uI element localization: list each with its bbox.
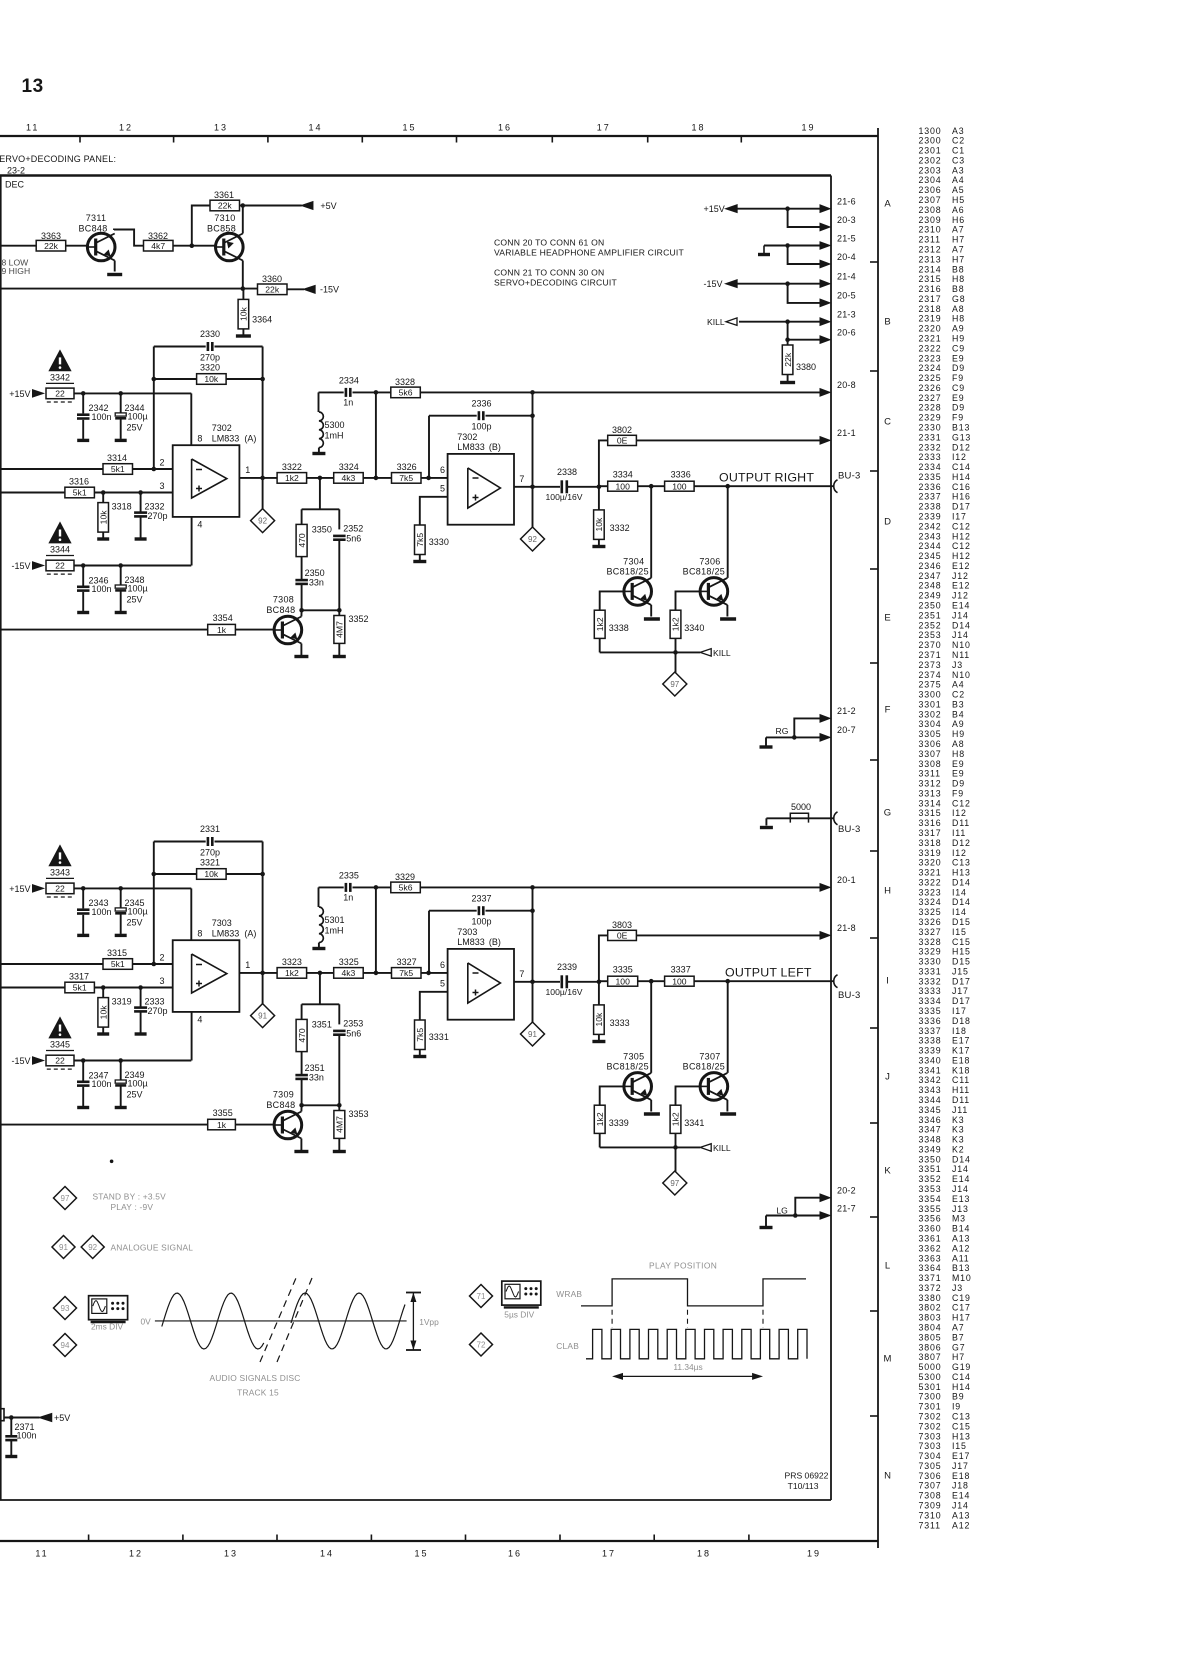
ground 2348: [115, 611, 127, 614]
connector pin 20-2: [820, 1194, 830, 1202]
svg-text:F9: F9: [952, 788, 964, 798]
svg-text:3803: 3803: [919, 1313, 942, 1323]
svg-text:C15: C15: [952, 937, 971, 947]
resistor 3331 (7k5): [415, 1020, 426, 1050]
svg-text:0E: 0E: [617, 436, 628, 446]
svg-text:3327: 3327: [919, 927, 942, 937]
svg-text:3353: 3353: [349, 1109, 369, 1119]
svg-text:G13: G13: [952, 432, 971, 442]
svg-text:100µ: 100µ: [128, 411, 148, 421]
wire Q1 emitter to ground: [650, 605, 652, 617]
svg-text:3329: 3329: [395, 872, 415, 882]
svg-text:4k3: 4k3: [341, 473, 355, 483]
svg-text:7300: 7300: [919, 1392, 942, 1402]
svg-text:94: 94: [61, 1341, 70, 1350]
svg-text:97: 97: [670, 1179, 679, 1188]
svg-text:H8: H8: [952, 749, 965, 759]
svg-text:3339: 3339: [609, 1118, 629, 1128]
svg-text:7307: 7307: [699, 1051, 720, 1061]
svg-text:14: 14: [320, 1549, 334, 1559]
svg-text:18: 18: [691, 123, 705, 133]
connector BU-3 output: [834, 975, 838, 988]
svg-text:I12: I12: [952, 848, 967, 858]
capacitor 2350 (33n): [301, 557, 303, 580]
svg-text:3335: 3335: [919, 1006, 942, 1016]
wire supply rail: [74, 565, 191, 567]
resistor 3352 (4M7): [338, 610, 340, 615]
capacitor 2345 (100u): [120, 888, 122, 908]
svg-text:(A): (A): [244, 929, 256, 939]
svg-text:J14: J14: [952, 630, 969, 640]
ground 2346: [77, 611, 89, 614]
node 3318 tap: [101, 985, 106, 990]
svg-text:3804: 3804: [919, 1323, 942, 1333]
svg-text:I14: I14: [952, 887, 967, 897]
svg-text:C13: C13: [952, 858, 971, 868]
svg-text:3302: 3302: [919, 709, 942, 719]
svg-text:3313: 3313: [919, 788, 942, 798]
svg-text:B13: B13: [952, 423, 970, 433]
wire 3380 to ground: [787, 375, 789, 382]
svg-text:21-7: 21-7: [837, 1203, 856, 1213]
svg-text:3321: 3321: [919, 868, 942, 878]
wire pin3 input: [0, 492, 65, 494]
svg-text:2319: 2319: [919, 314, 942, 324]
svg-text:6: 6: [440, 960, 445, 970]
svg-text:2333: 2333: [919, 452, 942, 462]
svg-text:D17: D17: [952, 996, 971, 1006]
svg-text:J17: J17: [952, 1461, 969, 1471]
node RG junction: [792, 735, 797, 740]
svg-text:7305: 7305: [919, 1461, 942, 1471]
node 2336 tap: [426, 476, 431, 481]
ground RG: [765, 737, 767, 745]
svg-text:5301: 5301: [919, 1382, 942, 1392]
svg-text:CLAB: CLAB: [556, 1341, 579, 1351]
svg-text:3348: 3348: [919, 1135, 942, 1145]
resistor 3341 (1k2): [670, 1105, 681, 1133]
svg-text:2304: 2304: [919, 175, 942, 185]
svg-text:C12: C12: [952, 541, 971, 551]
wire 1k2 to 4k3: [307, 972, 334, 974]
svg-text:J: J: [885, 1071, 890, 1082]
svg-text:A5: A5: [952, 185, 964, 195]
right ruler border: [877, 128, 879, 1548]
node 3362/3361 junction: [190, 243, 195, 248]
svg-text:0E: 0E: [617, 931, 628, 941]
connector pin 21-3: [820, 318, 830, 326]
svg-text:A3: A3: [952, 165, 964, 175]
ground 3380: [780, 381, 795, 384]
svg-text:9 HIGH: 9 HIGH: [2, 266, 31, 276]
svg-text:LM833: LM833: [457, 442, 485, 452]
ground 3331: [419, 1050, 421, 1056]
svg-text:E17: E17: [952, 1451, 970, 1461]
svg-text:3372: 3372: [919, 1283, 942, 1293]
svg-text:3324: 3324: [339, 462, 359, 472]
svg-text:15: 15: [402, 123, 416, 133]
svg-text:22: 22: [55, 1056, 65, 1066]
svg-text:L: L: [885, 1260, 890, 1271]
wire Qm collector: [300, 610, 302, 616]
svg-text:KILL: KILL: [713, 648, 731, 658]
svg-text:1k: 1k: [217, 625, 227, 635]
svg-text:5k1: 5k1: [111, 464, 125, 474]
svg-text:J15: J15: [952, 967, 969, 977]
power arrow -15V: [304, 286, 315, 294]
node bus tap: [374, 390, 379, 395]
svg-text:I15: I15: [952, 1441, 967, 1451]
resistor 3803 (0E): [599, 935, 608, 981]
signal arrow KILL: [726, 318, 737, 326]
svg-text:20-2: 20-2: [837, 1186, 856, 1196]
svg-text:3362: 3362: [148, 231, 168, 241]
wire to 20-4: [788, 246, 790, 265]
svg-text:E14: E14: [952, 1174, 970, 1184]
wire 100 to 100: [638, 980, 665, 982]
svg-text:7k5: 7k5: [415, 1028, 425, 1042]
svg-text:B9: B9: [952, 1392, 964, 1402]
svg-text:3325: 3325: [339, 957, 359, 967]
wire 1k2 to kill rail: [599, 638, 601, 652]
svg-text:5k6: 5k6: [399, 883, 413, 893]
svg-text:I12: I12: [952, 808, 967, 818]
svg-text:7: 7: [519, 474, 524, 484]
svg-text:2350: 2350: [919, 601, 942, 611]
svg-text:+15V: +15V: [9, 389, 30, 399]
capacitor 2348 (100u): [120, 566, 122, 586]
svg-text:2349: 2349: [919, 591, 942, 601]
svg-text:A3: A3: [952, 126, 964, 136]
svg-text:25V: 25V: [127, 917, 143, 927]
capacitor 2342 (100n): [82, 393, 84, 413]
svg-text:93: 93: [61, 1304, 70, 1313]
svg-text:5301: 5301: [325, 915, 345, 925]
CLAB waveform: [586, 1329, 807, 1358]
svg-text:A4: A4: [952, 175, 964, 185]
svg-text:A8: A8: [952, 739, 964, 749]
svg-text:A11: A11: [952, 1253, 970, 1263]
svg-text:7: 7: [519, 969, 524, 979]
svg-text:3353: 3353: [919, 1184, 942, 1194]
svg-text:2339: 2339: [919, 512, 942, 522]
wire 21-5 to ground stub: [764, 245, 790, 247]
svg-text:H7: H7: [952, 235, 965, 245]
svg-text:13: 13: [22, 76, 44, 97]
svg-text:OUTPUT LEFT: OUTPUT LEFT: [725, 966, 812, 980]
wire 4k3 to 7k5: [363, 972, 391, 974]
ground 3333: [598, 1034, 600, 1040]
svg-text:H14: H14: [952, 1382, 971, 1392]
test point diamond 91: [262, 973, 264, 1004]
svg-text:C: C: [884, 416, 891, 427]
svg-text:I9: I9: [952, 1402, 961, 1412]
svg-text:2306: 2306: [919, 185, 942, 195]
wire pin2 input: [0, 963, 103, 965]
svg-text:3301: 3301: [919, 699, 942, 709]
svg-text:B8: B8: [952, 264, 964, 274]
ground 7304 emitter: [644, 617, 660, 620]
node Q2 collector tap: [725, 979, 730, 984]
wire input to 3363: [0, 245, 36, 247]
svg-text:2302: 2302: [919, 156, 942, 166]
node bus tap: [374, 885, 379, 890]
svg-text:2330: 2330: [919, 423, 942, 433]
svg-text:2330: 2330: [200, 329, 220, 339]
svg-text:1300: 1300: [919, 126, 942, 136]
resistor 3333 (10k): [598, 982, 600, 1005]
svg-text:3341: 3341: [919, 1065, 942, 1075]
node -15V junction: [785, 281, 790, 286]
svg-text:7303: 7303: [212, 918, 232, 928]
svg-text:3364: 3364: [919, 1263, 942, 1273]
svg-text:11.34µs: 11.34µs: [673, 1362, 702, 1372]
svg-text:A13: A13: [952, 1234, 970, 1244]
svg-text:2300: 2300: [919, 136, 942, 146]
svg-text:C14: C14: [952, 462, 971, 472]
svg-text:E17: E17: [952, 1036, 970, 1046]
svg-text:DEC: DEC: [5, 180, 25, 190]
svg-text:A: A: [884, 198, 891, 209]
svg-text:3330: 3330: [429, 537, 449, 547]
svg-text:22k: 22k: [44, 241, 59, 251]
wire 7k5 to pin 6: [421, 972, 448, 974]
svg-text:2334: 2334: [339, 376, 359, 386]
svg-text:3338: 3338: [919, 1036, 942, 1046]
test point diamond 92: [262, 478, 264, 509]
svg-text:3325: 3325: [919, 907, 942, 917]
svg-text:G: G: [884, 807, 891, 818]
svg-text:4k3: 4k3: [341, 968, 355, 978]
node 100p right: [530, 413, 535, 418]
svg-text:3354: 3354: [919, 1194, 942, 1204]
svg-text:-15V: -15V: [320, 285, 339, 295]
svg-text:20-7: 20-7: [837, 725, 856, 735]
svg-text:M: M: [884, 1353, 892, 1364]
svg-text:BC848: BC848: [266, 1100, 295, 1110]
wire LG node: [766, 1215, 821, 1217]
svg-text:3308: 3308: [919, 759, 942, 769]
svg-text:11: 11: [26, 123, 39, 133]
wire 100 to 100: [638, 485, 665, 487]
svg-text:2343: 2343: [919, 531, 942, 541]
svg-text:J12: J12: [952, 591, 969, 601]
svg-text:-15V: -15V: [704, 279, 723, 289]
svg-text:2321: 2321: [919, 334, 942, 344]
svg-text:3329: 3329: [919, 947, 942, 957]
svg-text:14: 14: [308, 123, 322, 133]
WRAB waveform: [581, 1279, 806, 1306]
svg-text:270p: 270p: [200, 353, 220, 363]
connector pin 21-6: [820, 205, 830, 213]
node filter tap: [374, 971, 379, 976]
ground 3364: [236, 334, 251, 337]
ground LG: [765, 1216, 767, 1227]
svg-text:BU-3: BU-3: [838, 990, 860, 1001]
svg-text:E9: E9: [952, 769, 964, 779]
wire pin 5: [420, 992, 448, 1020]
svg-text:2337: 2337: [471, 894, 491, 904]
bottom ruler line: [0, 1540, 878, 1542]
resistor 3332 (10k): [598, 487, 600, 510]
wire feedback loop top rail (2331): [154, 841, 206, 843]
svg-text:2351: 2351: [305, 1063, 325, 1073]
wire Q2 base: [676, 1086, 701, 1105]
svg-text:5000: 5000: [791, 802, 811, 812]
svg-text:T10/113: T10/113: [788, 1481, 819, 1491]
inductor 5301 (1mH): [318, 887, 320, 907]
connector pin 20-4: [820, 260, 830, 268]
svg-text:3: 3: [159, 976, 164, 986]
oscilloscope icon left: [89, 1296, 128, 1320]
ground 7311 emitter: [107, 273, 122, 276]
svg-text:F9: F9: [952, 413, 964, 423]
svg-text:TRACK 15: TRACK 15: [237, 1388, 279, 1398]
svg-text:3351: 3351: [312, 1020, 332, 1030]
svg-text:7302: 7302: [457, 432, 477, 442]
node kill junction: [673, 650, 678, 655]
svg-text:3342: 3342: [50, 372, 70, 382]
svg-text:G8: G8: [952, 294, 965, 304]
legend diamond 97: [54, 1187, 77, 1210]
svg-text:25V: 25V: [127, 595, 143, 605]
svg-text:100µ: 100µ: [128, 1079, 148, 1089]
node 2332 tap: [138, 985, 143, 990]
capacitor 2343 (100n): [82, 888, 84, 908]
svg-text:11: 11: [35, 1549, 48, 1559]
svg-text:7304: 7304: [623, 556, 644, 566]
svg-text:2371: 2371: [919, 650, 942, 660]
svg-text:2314: 2314: [919, 264, 942, 274]
svg-text:97: 97: [670, 680, 679, 689]
svg-text:D14: D14: [952, 897, 971, 907]
connector BU-3 output: [834, 480, 838, 493]
test point diamond 97: [675, 1147, 677, 1171]
power arrow +15V (connector): [726, 205, 737, 213]
node LG junction: [793, 1213, 798, 1218]
svg-text:3320: 3320: [919, 858, 942, 868]
wire 1k2 to kill rail: [675, 1133, 677, 1147]
wire kill rail: [600, 1146, 701, 1148]
svg-text:LM833: LM833: [212, 434, 240, 444]
svg-text:3344: 3344: [50, 545, 70, 555]
svg-text:3347: 3347: [919, 1125, 942, 1135]
node kill junction: [673, 1145, 678, 1150]
wire Qm emitter: [300, 1139, 302, 1151]
svg-text:7311: 7311: [919, 1520, 941, 1530]
svg-text:N11: N11: [952, 650, 970, 660]
svg-text:3307: 3307: [919, 749, 942, 759]
svg-text:3300: 3300: [919, 690, 942, 700]
svg-text:H13: H13: [952, 1431, 971, 1441]
svg-text:2308: 2308: [919, 205, 942, 215]
svg-text:3355: 3355: [919, 1204, 942, 1214]
resistor 3380: [787, 340, 789, 345]
resistor 3351 (470): [296, 1019, 307, 1051]
wire mute collector rail: [302, 1104, 340, 1106]
svg-text:21-6: 21-6: [837, 197, 856, 207]
svg-text:LM833: LM833: [457, 937, 485, 947]
svg-text:3323: 3323: [919, 887, 942, 897]
svg-text:16: 16: [508, 1549, 522, 1559]
wire feedback right rail: [262, 842, 264, 973]
svg-text:CONN 20 TO CONN 61 ON: CONN 20 TO CONN 61 ON: [494, 238, 604, 248]
svg-text:BC818/25: BC818/25: [683, 567, 725, 577]
svg-text:D18: D18: [952, 1016, 971, 1026]
svg-text:3380: 3380: [919, 1293, 942, 1303]
svg-text:1: 1: [245, 465, 250, 475]
svg-text:2332: 2332: [145, 501, 165, 511]
svg-text:7310: 7310: [214, 213, 235, 223]
svg-text:10k: 10k: [98, 510, 108, 525]
svg-text:3363: 3363: [41, 231, 61, 241]
wire output node vertical: [532, 392, 534, 527]
svg-text:100: 100: [672, 481, 687, 491]
svg-text:C11: C11: [952, 1075, 970, 1085]
svg-text:3360: 3360: [262, 274, 282, 284]
svg-text:3341: 3341: [684, 1118, 704, 1128]
svg-text:F: F: [885, 704, 891, 715]
svg-text:4M7: 4M7: [335, 1116, 345, 1133]
schematic frame bottom edge: [0, 1499, 831, 1501]
wire supply rail: [74, 392, 191, 394]
svg-text:5k6: 5k6: [399, 388, 413, 398]
svg-text:3315: 3315: [107, 948, 127, 958]
svg-text:8: 8: [197, 434, 202, 444]
node pin7 junction: [530, 980, 535, 985]
node Q2 collector tap: [725, 484, 730, 489]
wire 1k2 to kill rail: [599, 1133, 601, 1147]
capacitor 2347 (100n): [82, 1061, 84, 1081]
wire mute input: [0, 629, 208, 631]
svg-text:D12: D12: [952, 442, 971, 452]
resistor 3318 (10k): [102, 493, 104, 503]
test point diamond 91: [521, 1022, 545, 1046]
connector pin 21-7: [820, 1212, 830, 1219]
svg-text:3337: 3337: [919, 1026, 942, 1036]
wire Qm collector: [300, 1105, 302, 1111]
warning triangle 3345: [49, 1018, 71, 1038]
svg-text:K3: K3: [952, 1125, 964, 1135]
svg-text:2315: 2315: [919, 274, 942, 284]
svg-text:1k2: 1k2: [285, 968, 299, 978]
svg-text:25V: 25V: [127, 1090, 143, 1100]
svg-text:3316: 3316: [919, 818, 942, 828]
svg-text:3336: 3336: [671, 470, 691, 480]
svg-text:5µs DIV: 5µs DIV: [504, 1310, 534, 1320]
svg-text:B3: B3: [952, 699, 964, 709]
svg-text:23-2: 23-2: [7, 166, 25, 176]
svg-text:M10: M10: [952, 1273, 972, 1283]
svg-text:3337: 3337: [671, 965, 691, 975]
svg-text:PLAY POSITION: PLAY POSITION: [649, 1261, 717, 1271]
svg-text:3311: 3311: [919, 769, 941, 779]
svg-text:7307: 7307: [919, 1481, 942, 1491]
svg-text:270p: 270p: [200, 848, 220, 858]
wire 1k to Qm base: [235, 629, 274, 631]
wire feedback loop top rail (2330): [154, 346, 206, 348]
svg-text:92: 92: [528, 535, 537, 544]
svg-text:21-2: 21-2: [837, 706, 856, 716]
svg-text:7310: 7310: [919, 1510, 942, 1520]
svg-text:71: 71: [477, 1292, 486, 1301]
svg-text:D15: D15: [952, 917, 971, 927]
svg-text:K18: K18: [952, 1065, 970, 1075]
svg-text:3346: 3346: [919, 1115, 942, 1125]
svg-text:100p: 100p: [471, 917, 491, 927]
svg-text:2335: 2335: [339, 871, 359, 881]
wire up to 3361: [192, 206, 210, 246]
